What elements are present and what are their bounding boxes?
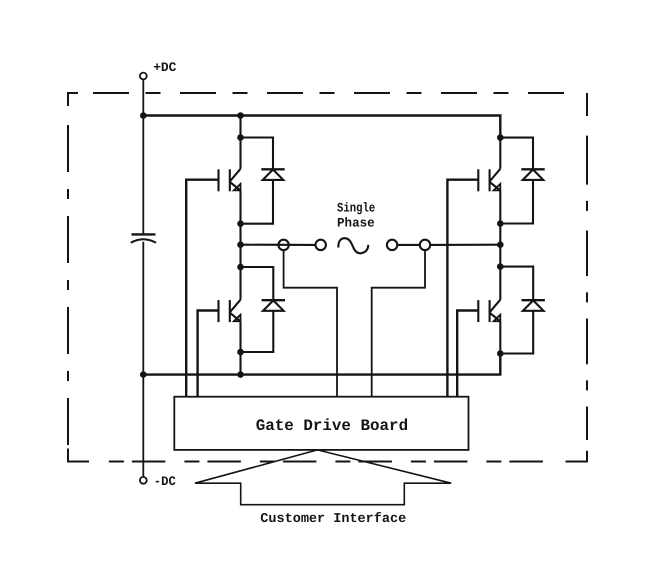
junction: Q1 emitter node <box>237 220 244 227</box>
junction: Q2 collector node <box>237 264 244 271</box>
capacitor C1 top plate <box>132 233 156 235</box>
wire: Q2 gate lead and feed to gate drive board <box>198 311 219 397</box>
wire: capacitor top lead <box>142 116 144 234</box>
output terminal circle 4 <box>420 240 430 250</box>
diode D2 (freewheel, lower left) <box>262 300 285 311</box>
IGBT Q2 (lower left) <box>219 300 241 322</box>
wire: terminal 3 to terminal 4 <box>397 244 420 246</box>
wire: capacitor bottom lead <box>142 242 144 375</box>
output terminal circle 2 <box>316 240 326 250</box>
output terminal circle 1 <box>278 240 288 250</box>
enclosure dashed boundary <box>68 93 587 462</box>
wire: bottom DC bus <box>143 354 500 375</box>
svg-text:Single: Single <box>337 200 375 215</box>
svg-text:Phase: Phase <box>337 216 375 231</box>
junction: left phase node <box>237 241 244 248</box>
wire: right phase sense to gate drive board <box>372 250 425 397</box>
junction: top bus / capacitor leg <box>140 112 147 119</box>
IGBT Q3 (upper right) <box>478 169 500 192</box>
IGBT Q4 (lower right) <box>478 300 500 322</box>
capacitor C1 bottom plate (curved) <box>131 239 156 243</box>
svg-text:Customer Interface: Customer Interface <box>260 512 406 527</box>
wire: right leg to bottom bus <box>499 321 501 353</box>
svg-text:+DC: +DC <box>153 60 176 75</box>
junction: bottom bus / -DC leg <box>140 371 147 378</box>
diode D3 (freewheel, upper right) <box>521 169 544 180</box>
wire: diode D1 branch leads <box>241 138 274 224</box>
wire: diode D3 branch leads <box>500 138 533 224</box>
wire: top DC bus <box>143 116 500 138</box>
output terminal circle 3 <box>387 240 397 250</box>
+DC terminal <box>140 73 147 80</box>
diode D4 (freewheel, lower right) <box>522 300 545 311</box>
customer interface pointer outline <box>195 450 451 505</box>
junction: right phase node <box>497 241 504 248</box>
junction: Q4 emitter node <box>497 350 504 357</box>
wire: Q4 gate lead and feed to gate drive board <box>457 311 478 397</box>
gate drive board box <box>174 397 468 450</box>
wire: right phase output <box>430 244 500 246</box>
wire: Q3 gate lead and feed to gate drive board <box>447 180 478 397</box>
wire: left leg middle segment <box>239 191 241 300</box>
wire: left leg to bottom bus <box>239 321 241 374</box>
junction: Q3 collector node <box>497 134 504 141</box>
-DC terminal <box>140 477 147 484</box>
IGBT Q1 (upper left) <box>219 169 241 192</box>
wire: +DC terminal to top bus <box>142 79 144 115</box>
wire: left phase output <box>241 244 316 246</box>
diode D1 (freewheel, upper left) <box>261 169 284 180</box>
svg-text:Gate Drive Board: Gate Drive Board <box>256 417 408 435</box>
wire: diode D4 branch leads <box>500 267 533 354</box>
wire: right leg upper collector segment <box>499 138 501 169</box>
junction: Q4 collector node <box>497 263 504 270</box>
svg-text:-DC: -DC <box>154 474 176 489</box>
wire: -DC lead <box>142 375 144 477</box>
wire: right leg middle segment <box>499 191 501 300</box>
junction: top bus / left leg <box>237 112 244 119</box>
wire: Q1 gate lead and feed to gate drive board <box>186 180 218 397</box>
single phase AC source (sine) <box>338 238 368 253</box>
junction: Q1 collector node <box>237 134 244 141</box>
junction: bottom bus / left leg <box>237 371 244 378</box>
wire: diode D2 branch leads <box>241 267 274 352</box>
junction: Q2 emitter node <box>237 349 244 356</box>
junction: Q3 emitter node <box>497 220 504 227</box>
wire: left phase sense to gate drive board <box>284 250 337 397</box>
wire: left leg upper collector segment <box>239 116 241 169</box>
